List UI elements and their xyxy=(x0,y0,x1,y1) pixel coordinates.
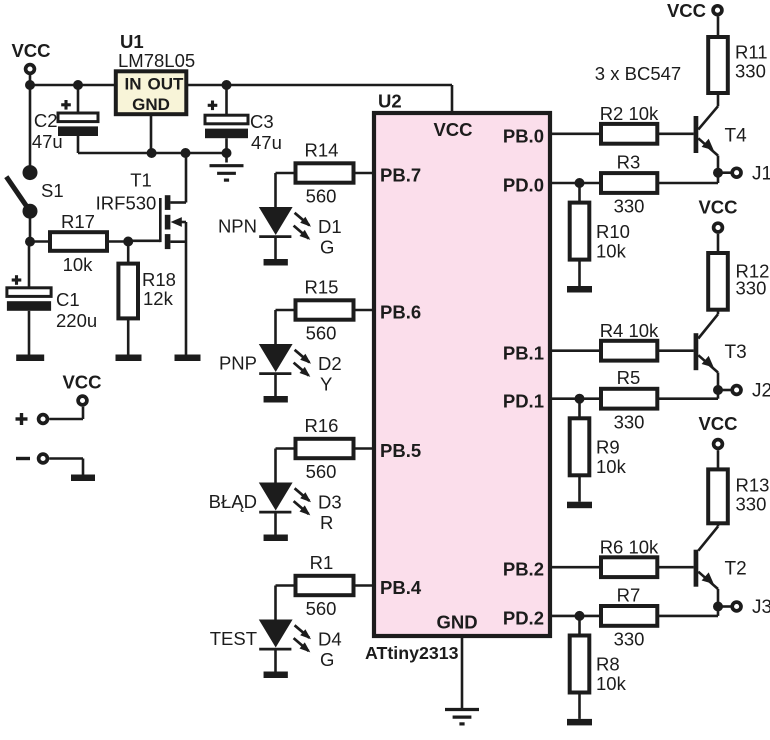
svg-text:BŁĄD: BŁĄD xyxy=(209,491,257,512)
svg-text:C1: C1 xyxy=(56,289,80,310)
svg-text:330: 330 xyxy=(614,629,645,650)
svg-text:R11: R11 xyxy=(735,42,768,63)
svg-text:D1: D1 xyxy=(318,216,342,237)
svg-text:PB.6: PB.6 xyxy=(380,301,421,322)
svg-text:J3: J3 xyxy=(752,597,770,618)
svg-text:PB.4: PB.4 xyxy=(380,577,422,598)
svg-text:T1: T1 xyxy=(130,169,152,190)
svg-text:PB.5: PB.5 xyxy=(380,440,421,461)
svg-text:R4 10k: R4 10k xyxy=(600,320,659,341)
svg-text:GND: GND xyxy=(132,95,170,114)
svg-text:R: R xyxy=(320,512,333,533)
svg-text:R9: R9 xyxy=(596,437,620,458)
svg-text:R15: R15 xyxy=(305,277,339,298)
svg-text:560: 560 xyxy=(306,598,337,619)
svg-text:10k: 10k xyxy=(596,240,627,261)
svg-text:R8: R8 xyxy=(596,654,620,675)
svg-text:10k: 10k xyxy=(596,673,627,694)
svg-text:VCC: VCC xyxy=(433,119,472,140)
svg-text:330: 330 xyxy=(736,278,767,299)
svg-text:47u: 47u xyxy=(251,132,282,153)
svg-text:R13: R13 xyxy=(736,475,770,496)
svg-text:G: G xyxy=(320,649,334,670)
svg-text:PB.0: PB.0 xyxy=(503,126,544,147)
svg-text:220u: 220u xyxy=(56,310,97,331)
svg-text:U1: U1 xyxy=(120,31,144,52)
svg-text:560: 560 xyxy=(306,461,337,482)
svg-text:VCC: VCC xyxy=(698,413,737,434)
svg-text:S1: S1 xyxy=(41,180,64,201)
svg-text:TEST: TEST xyxy=(210,628,257,649)
svg-text:R5: R5 xyxy=(617,367,641,388)
svg-text:OUT: OUT xyxy=(148,75,185,94)
svg-text:560: 560 xyxy=(306,186,337,207)
svg-text:12k: 12k xyxy=(143,288,174,309)
svg-text:D3: D3 xyxy=(318,492,342,513)
svg-text:10k: 10k xyxy=(63,254,94,275)
svg-text:PD.0: PD.0 xyxy=(503,175,544,196)
svg-text:R7: R7 xyxy=(617,584,641,605)
svg-text:3 x BC547: 3 x BC547 xyxy=(595,63,681,84)
svg-text:VCC: VCC xyxy=(667,0,706,21)
svg-text:PB.1: PB.1 xyxy=(503,343,544,364)
svg-text:330: 330 xyxy=(614,411,645,432)
svg-text:Y: Y xyxy=(320,374,332,395)
svg-text:J2: J2 xyxy=(752,381,770,402)
svg-text:R14: R14 xyxy=(305,140,339,161)
svg-text:C3: C3 xyxy=(250,111,274,132)
svg-text:D2: D2 xyxy=(318,353,342,374)
svg-text:J1: J1 xyxy=(752,163,770,184)
svg-text:R3: R3 xyxy=(617,152,641,173)
svg-text:GND: GND xyxy=(436,612,477,633)
svg-text:47u: 47u xyxy=(32,131,63,152)
svg-text:ATtiny2313: ATtiny2313 xyxy=(365,643,459,663)
svg-text:R10: R10 xyxy=(596,221,630,242)
svg-text:IRF530: IRF530 xyxy=(96,193,157,214)
svg-text:10k: 10k xyxy=(596,456,627,477)
svg-text:T3: T3 xyxy=(725,342,747,363)
svg-text:PD.2: PD.2 xyxy=(503,608,544,629)
svg-text:560: 560 xyxy=(306,323,337,344)
svg-text:VCC: VCC xyxy=(62,372,101,393)
svg-text:IN: IN xyxy=(125,75,142,94)
svg-text:NPN: NPN xyxy=(218,216,257,237)
svg-text:R6 10k: R6 10k xyxy=(600,537,659,558)
svg-text:PB.2: PB.2 xyxy=(503,559,544,580)
svg-text:330: 330 xyxy=(735,61,766,82)
svg-text:PD.1: PD.1 xyxy=(503,390,544,411)
svg-text:R18: R18 xyxy=(142,269,176,290)
svg-text:VCC: VCC xyxy=(698,196,737,217)
svg-text:VCC: VCC xyxy=(11,40,50,61)
svg-text:C2: C2 xyxy=(34,110,58,131)
svg-text:R2 10k: R2 10k xyxy=(600,103,659,124)
svg-text:PB.7: PB.7 xyxy=(380,164,421,185)
svg-text:LM78L05: LM78L05 xyxy=(118,50,195,71)
svg-text:R17: R17 xyxy=(61,211,95,232)
svg-text:T2: T2 xyxy=(725,559,747,580)
svg-text:R1: R1 xyxy=(310,552,334,573)
svg-text:PNP: PNP xyxy=(219,353,257,374)
svg-text:T4: T4 xyxy=(725,125,748,146)
svg-text:U2: U2 xyxy=(378,91,402,112)
svg-text:330: 330 xyxy=(614,196,645,217)
svg-text:R16: R16 xyxy=(305,415,339,436)
svg-text:D4: D4 xyxy=(318,629,342,650)
svg-text:330: 330 xyxy=(736,494,767,515)
svg-text:G: G xyxy=(320,237,334,258)
